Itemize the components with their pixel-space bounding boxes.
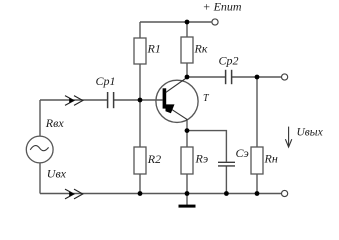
wire R2 bottom stub <box>139 174 141 194</box>
source generator sine <box>30 146 48 151</box>
svg-text:Cэ: Cэ <box>236 146 249 160</box>
transistor T base bar <box>163 88 167 108</box>
wire ground stub <box>186 194 188 206</box>
arrow Uvyx <box>285 127 291 147</box>
node output branch <box>255 75 260 80</box>
resistor R1 <box>134 38 146 64</box>
svg-text:Rк: Rк <box>194 41 208 55</box>
transistor T circle <box>156 80 198 122</box>
terminal output top <box>282 74 288 80</box>
resistor Re <box>181 147 193 174</box>
node supply junction <box>185 20 190 25</box>
wire base line from Cp1 to transistor base <box>114 99 163 101</box>
terminal output bottom <box>282 190 288 196</box>
node collector <box>185 75 190 80</box>
transistor T emitter line <box>166 106 187 131</box>
svg-text:R1: R1 <box>147 41 161 55</box>
svg-text:Uвх: Uвх <box>47 167 67 181</box>
arrows input top <box>65 96 83 106</box>
resistor Rk <box>181 37 193 63</box>
node bottom ground <box>185 191 190 196</box>
node emitter <box>185 128 190 133</box>
transistor T collector line <box>166 78 187 93</box>
resistor R2 <box>134 147 146 174</box>
svg-text:Cр2: Cр2 <box>219 54 239 68</box>
svg-text:Rэ: Rэ <box>195 152 209 166</box>
wire top rail <box>140 21 211 23</box>
wire Rn bottom stub <box>256 174 258 194</box>
svg-text:+ Eпит: + Eпит <box>203 0 242 14</box>
svg-text:Uвых: Uвых <box>297 127 324 139</box>
svg-text:Rвх: Rвх <box>45 116 65 130</box>
terminal supply <box>212 19 218 25</box>
ground <box>179 205 196 208</box>
wire Cp2 to output node <box>232 76 257 78</box>
wire Rk top stub <box>186 22 188 37</box>
arrows input bottom <box>65 189 83 199</box>
wire collector node to Cp2 <box>187 76 225 78</box>
wire input left vertical upper <box>39 100 41 136</box>
node base <box>138 98 143 103</box>
wire output node down to Rn <box>256 77 258 147</box>
svg-text:R2: R2 <box>147 152 161 166</box>
wire Re bottom stub <box>186 174 188 194</box>
node bottom Rn <box>255 191 260 196</box>
wire R2 top stub from base node <box>139 100 141 147</box>
wire output node to top output terminal <box>257 76 281 78</box>
wire input top from source to Cp1 <box>40 99 107 101</box>
wire Ce bottom stub <box>225 166 227 193</box>
svg-text:Cр1: Cр1 <box>96 74 116 88</box>
wire input left vertical lower <box>39 163 41 194</box>
wire emitter node right to Ce <box>187 131 226 162</box>
capacitor Ce <box>218 162 235 166</box>
source generator circle <box>26 136 53 163</box>
transistor T emitter arrow <box>166 104 175 113</box>
wire R1 top stub <box>139 22 141 38</box>
node bottom Ce <box>224 191 229 196</box>
resistor Rn <box>251 147 263 174</box>
svg-text:Rн: Rн <box>264 152 278 166</box>
wire emitter node to Re <box>186 131 188 147</box>
capacitor Cp1 <box>108 92 114 108</box>
wire bottom rail <box>40 193 281 195</box>
node bottom R2 <box>138 191 143 196</box>
wire Rk bottom stub to collector node <box>186 63 188 77</box>
capacitor Cp2 <box>226 70 232 84</box>
wire R1 bottom stub to base node <box>139 64 141 100</box>
